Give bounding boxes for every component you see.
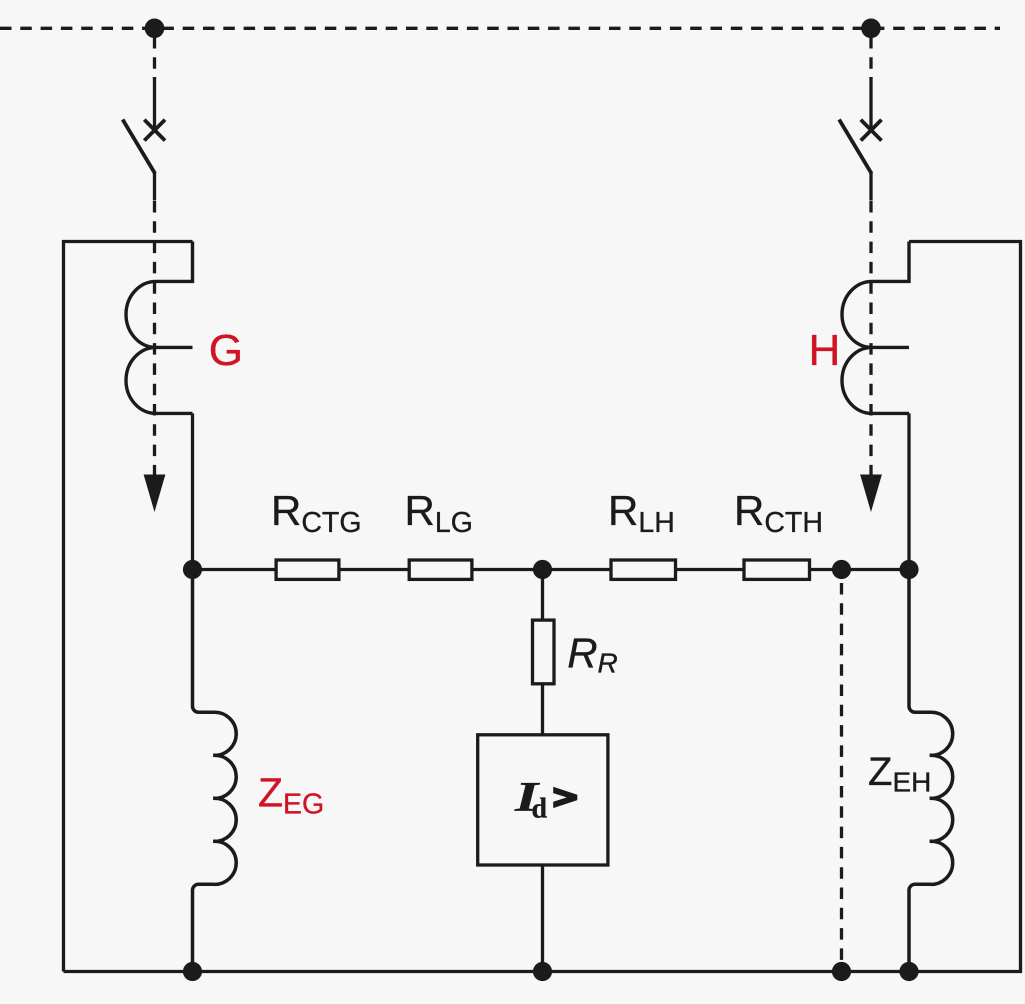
resistor RCTG [276, 560, 339, 579]
node: left secondary junction [183, 560, 202, 579]
resistor RLG [409, 560, 472, 579]
node: center junction (relay branch) [533, 560, 552, 579]
resistor RR (vertical) [533, 620, 555, 684]
node: bus tap G [145, 19, 165, 39]
svg-text:G: G [209, 326, 243, 375]
svg-text:RCTG: RCTG [271, 487, 362, 539]
wire: relay box to bottom rail [541, 865, 544, 972]
circuit breaker H (open switch with x contact) [839, 77, 881, 201]
node: right dashed branch junction [832, 560, 851, 579]
node: bottom right [899, 962, 918, 981]
inductor ZEH (earthing impedance, right) [909, 570, 953, 972]
svg-text:RLG: RLG [405, 487, 473, 539]
inductor ZEG (earthing impedance, left) [193, 570, 237, 972]
CT H secondary winding [842, 242, 909, 414]
svg-text:RR: RR [567, 630, 618, 679]
wire: dashed drop from bus to breaker H [869, 37, 872, 79]
node: bus tap H [861, 19, 881, 39]
svg-text:RCTH: RCTH [734, 487, 823, 539]
wire: center node to resistor RR [541, 570, 544, 621]
wire: dashed drop from bus to breaker G [153, 37, 156, 79]
circuit breaker G (open switch with x contact) [123, 77, 165, 201]
node: right secondary junction [899, 560, 918, 579]
node: bottom center [533, 962, 552, 981]
node: bottom dashed branch [832, 962, 851, 981]
wire: main horizontal secondary row [193, 568, 910, 571]
arrow: current direction H [860, 475, 882, 513]
wire: CT G to node G [191, 413, 194, 569]
wire: dashed primary line through CT G [153, 201, 156, 479]
arrow: current direction G [144, 475, 166, 513]
busbar (dashed horizontal bus line) [0, 27, 1000, 30]
relay box Id> [478, 735, 608, 865]
resistor RLH [611, 560, 676, 579]
CT G secondary winding [126, 242, 192, 414]
wire: secondary loop (left side, bottom, right side) [64, 242, 1021, 972]
svg-text:ZEG: ZEG [258, 770, 324, 821]
wire: resistor RR to relay box [541, 684, 544, 735]
svg-text:ZEH: ZEH [868, 750, 931, 798]
node: bottom left [183, 962, 202, 981]
wire: dashed primary line through CT H [869, 201, 872, 479]
svg-text:d: d [532, 794, 548, 825]
wire: dashed branch from node to bottom rail [840, 570, 843, 972]
svg-text:RLH: RLH [608, 487, 675, 539]
wire: CT H to node H [907, 413, 910, 569]
resistor RCTH [744, 560, 810, 579]
svg-text:H: H [809, 326, 841, 375]
greater-than symbol of relay label [553, 787, 577, 808]
